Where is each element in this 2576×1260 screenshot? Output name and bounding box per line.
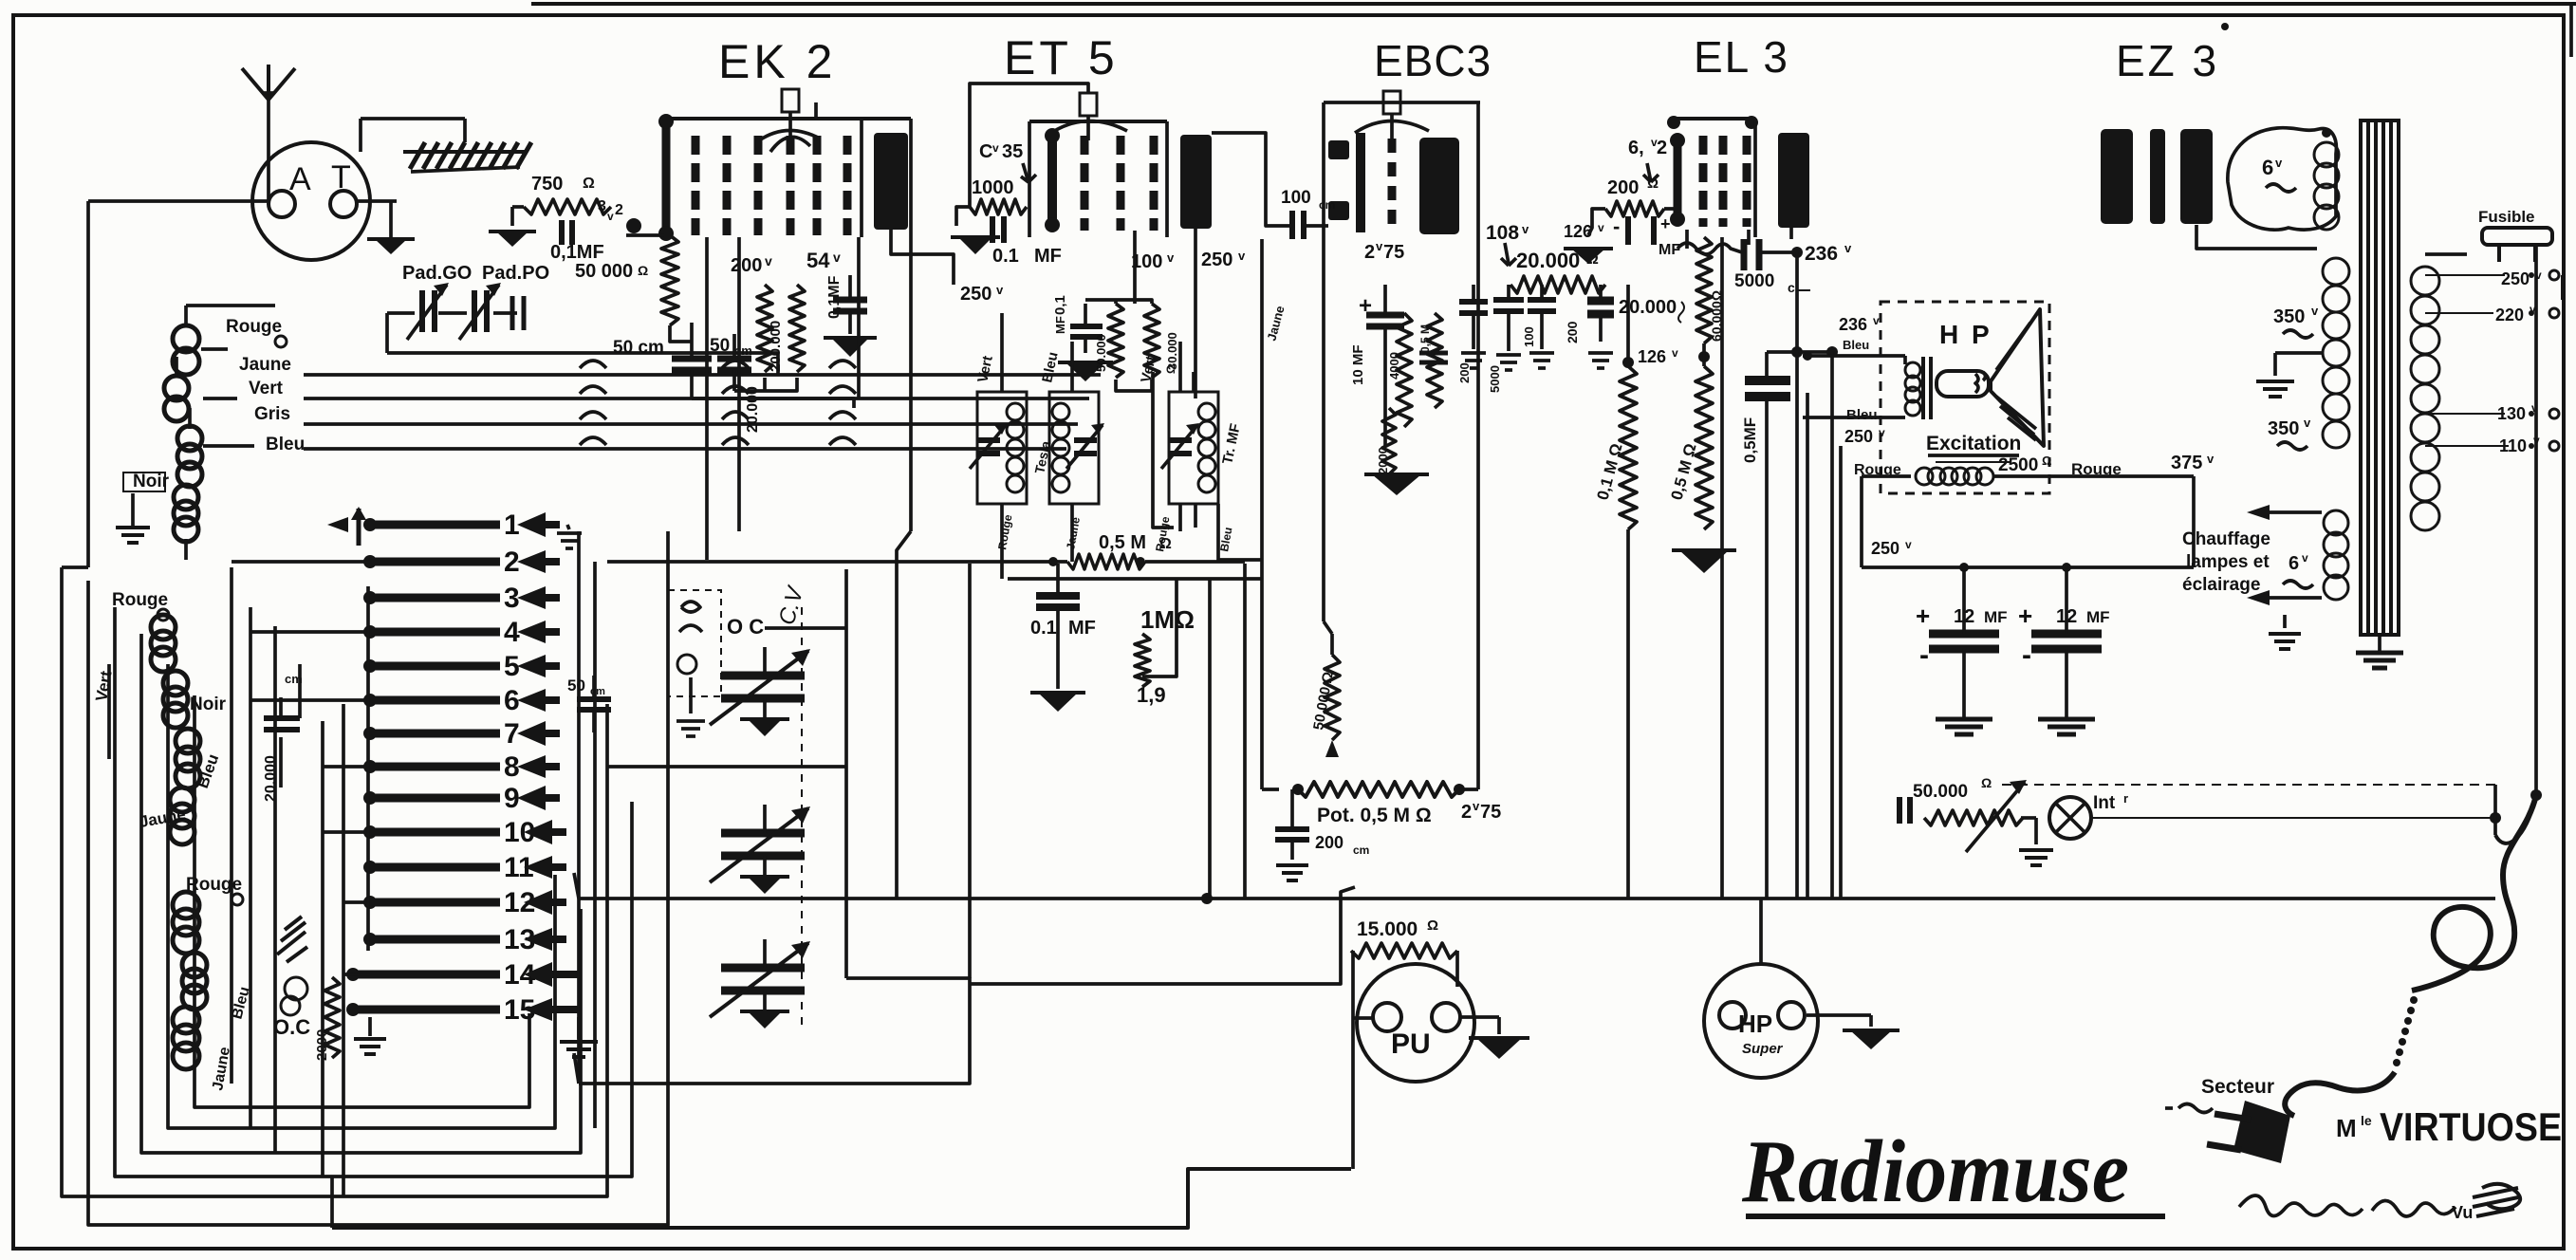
svg-text:250: 250 xyxy=(1201,250,1232,270)
svg-text:5000: 5000 xyxy=(1734,271,1774,291)
svg-text:+: + xyxy=(2018,602,2032,630)
svg-text:4: 4 xyxy=(504,617,520,648)
svg-text:200: 200 xyxy=(731,255,762,276)
svg-text:200: 200 xyxy=(1607,177,1639,198)
svg-text:Vert: Vert xyxy=(249,379,284,398)
svg-text:MF: MF xyxy=(1053,316,1067,334)
svg-text:T: T xyxy=(331,159,351,195)
svg-text:v: v xyxy=(996,283,1004,297)
svg-text:6: 6 xyxy=(2262,156,2273,179)
svg-text:v: v xyxy=(607,210,614,223)
svg-text:50 000: 50 000 xyxy=(575,261,633,282)
svg-text:v: v xyxy=(2207,452,2215,466)
svg-text:Radiomuse: Radiomuse xyxy=(1741,1122,2129,1221)
svg-text:3: 3 xyxy=(504,583,520,614)
svg-text:v: v xyxy=(992,141,999,155)
svg-text:Pad.GO: Pad.GO xyxy=(402,263,472,284)
svg-text:108: 108 xyxy=(1486,222,1519,244)
svg-text:Chauffage: Chauffage xyxy=(2182,529,2270,549)
svg-text:0.1: 0.1 xyxy=(1030,618,1057,639)
svg-text:1: 1 xyxy=(504,510,520,541)
svg-text:c: c xyxy=(1788,280,1795,295)
svg-text:250: 250 xyxy=(960,284,991,305)
svg-text:MF: MF xyxy=(1984,608,2008,626)
svg-text:Pad.PO: Pad.PO xyxy=(482,263,549,284)
svg-text:Noir: Noir xyxy=(133,472,170,491)
svg-text:75: 75 xyxy=(1383,242,1404,263)
svg-text:350: 350 xyxy=(2268,418,2299,439)
svg-text:v: v xyxy=(765,253,772,269)
svg-text:v: v xyxy=(1879,426,1885,439)
svg-text:cm: cm xyxy=(1353,843,1369,857)
svg-text:Jaune: Jaune xyxy=(239,355,291,375)
svg-text:0,5 M: 0,5 M xyxy=(1099,532,1146,553)
svg-text:Ω: Ω xyxy=(1981,775,1992,790)
svg-text:3: 3 xyxy=(598,198,606,214)
svg-text:0,1MF: 0,1MF xyxy=(550,242,604,263)
svg-text:O C: O C xyxy=(727,615,764,639)
svg-text:Ω: Ω xyxy=(1159,536,1172,552)
svg-text:Bleu: Bleu xyxy=(1843,338,1869,352)
svg-text:6: 6 xyxy=(504,685,520,716)
svg-text:0,1: 0,1 xyxy=(1052,295,1068,315)
svg-text:15.000: 15.000 xyxy=(1357,918,1418,940)
svg-text:50.000: 50.000 xyxy=(1094,334,1108,372)
svg-text:v: v xyxy=(1873,314,1880,327)
svg-text:126: 126 xyxy=(1638,347,1666,366)
svg-text:Bleu: Bleu xyxy=(1846,407,1878,423)
svg-text:ET 5: ET 5 xyxy=(1004,31,1119,84)
svg-text:126: 126 xyxy=(1564,222,1592,241)
svg-text:1000: 1000 xyxy=(972,177,1014,198)
svg-text:2: 2 xyxy=(1364,242,1375,263)
svg-text:20.000: 20.000 xyxy=(745,386,761,433)
svg-text:Ω: Ω xyxy=(1164,364,1177,374)
svg-text:5: 5 xyxy=(504,651,520,682)
svg-text:A: A xyxy=(289,161,311,197)
svg-text:2: 2 xyxy=(615,202,623,218)
svg-text:M: M xyxy=(2336,1114,2357,1142)
svg-text:+: + xyxy=(1916,602,1930,630)
svg-text:v: v xyxy=(2275,156,2283,170)
svg-text:v: v xyxy=(1473,799,1480,813)
svg-text:20.000: 20.000 xyxy=(1516,249,1580,272)
svg-text:v: v xyxy=(1167,250,1175,265)
svg-text:-: - xyxy=(1919,639,1929,671)
svg-text:30.000: 30.000 xyxy=(1165,332,1179,370)
svg-text:C: C xyxy=(979,141,992,162)
svg-text:v: v xyxy=(2302,551,2308,565)
svg-text:HP: HP xyxy=(1738,1010,1772,1038)
svg-text:8: 8 xyxy=(504,751,520,783)
svg-text:v: v xyxy=(2311,304,2319,318)
svg-text:Bleu: Bleu xyxy=(266,435,305,454)
svg-text:EZ 3: EZ 3 xyxy=(2116,36,2219,85)
svg-text:Ω: Ω xyxy=(1647,176,1659,192)
svg-text:v: v xyxy=(2304,416,2311,430)
svg-text:2: 2 xyxy=(1461,802,1472,823)
svg-text:75: 75 xyxy=(1480,802,1501,823)
svg-text:50: 50 xyxy=(710,336,730,356)
svg-text:200.000: 200.000 xyxy=(768,321,784,372)
svg-text:éclairage: éclairage xyxy=(2182,575,2260,595)
svg-text:350: 350 xyxy=(2273,306,2305,327)
svg-text:236: 236 xyxy=(1805,243,1838,265)
svg-text:1MΩ: 1MΩ xyxy=(1140,605,1195,634)
svg-text:6,: 6, xyxy=(1628,138,1644,158)
svg-text:250: 250 xyxy=(1871,539,1900,558)
svg-text:50.000: 50.000 xyxy=(1913,782,1968,802)
svg-text:2500: 2500 xyxy=(1998,455,2038,475)
svg-text:Super: Super xyxy=(1742,1041,1784,1057)
svg-text:Ω: Ω xyxy=(2042,454,2051,468)
svg-text:MF: MF xyxy=(2086,608,2110,626)
svg-text:1,9: 1,9 xyxy=(1137,683,1166,707)
svg-text:236: 236 xyxy=(1839,315,1867,334)
svg-text:50: 50 xyxy=(567,676,585,695)
svg-text:v: v xyxy=(1598,221,1604,234)
svg-text:0,5 M: 0,5 M xyxy=(1418,324,1432,353)
svg-text:250: 250 xyxy=(2501,269,2530,288)
svg-text:250: 250 xyxy=(1844,427,1873,446)
svg-text:r: r xyxy=(2123,791,2128,806)
svg-text:50 cm: 50 cm xyxy=(613,338,664,358)
svg-text:PU: PU xyxy=(1391,1028,1431,1060)
svg-text:v: v xyxy=(833,250,841,265)
svg-text:4000: 4000 xyxy=(1387,352,1401,380)
svg-text:Rouge: Rouge xyxy=(226,317,282,337)
svg-text:cm: cm xyxy=(1319,198,1335,212)
svg-text:le: le xyxy=(2361,1113,2372,1128)
svg-text:0,5MF: 0,5MF xyxy=(1741,417,1759,463)
svg-text:Fusible: Fusible xyxy=(2478,208,2535,226)
svg-text:0.1: 0.1 xyxy=(992,246,1019,267)
svg-text:54: 54 xyxy=(806,249,830,272)
svg-text:2: 2 xyxy=(1657,138,1667,158)
svg-text:EL 3: EL 3 xyxy=(1694,32,1789,82)
svg-text:v: v xyxy=(1905,538,1912,551)
svg-text:35: 35 xyxy=(1002,141,1023,162)
svg-text:v: v xyxy=(1672,346,1678,360)
svg-text:Ω: Ω xyxy=(583,176,595,192)
svg-text:MF: MF xyxy=(1659,242,1680,258)
svg-text:200: 200 xyxy=(1565,321,1580,343)
svg-text:O.C: O.C xyxy=(273,1015,310,1039)
svg-text:10 MF: 10 MF xyxy=(1350,344,1366,385)
svg-text:MF: MF xyxy=(1068,618,1096,639)
svg-text:Pot. 0,5 M Ω: Pot. 0,5 M Ω xyxy=(1317,805,1432,826)
svg-text:Secteur: Secteur xyxy=(2201,1076,2274,1098)
svg-text:Ω: Ω xyxy=(1427,917,1438,934)
svg-text:750: 750 xyxy=(531,174,563,195)
svg-text:375: 375 xyxy=(2171,453,2202,473)
svg-text:Int: Int xyxy=(2093,793,2116,813)
svg-text:5000: 5000 xyxy=(1488,365,1502,393)
svg-text:6: 6 xyxy=(2289,553,2299,574)
svg-text:2: 2 xyxy=(504,547,520,578)
svg-text:9: 9 xyxy=(504,783,520,814)
svg-text:H P: H P xyxy=(1939,320,1992,349)
svg-text:+: + xyxy=(1660,214,1671,233)
svg-text:v: v xyxy=(1844,241,1852,255)
svg-text:EK 2: EK 2 xyxy=(718,35,836,88)
svg-text:VIRTUOSE: VIRTUOSE xyxy=(2380,1104,2562,1149)
svg-text:v: v xyxy=(1522,222,1529,236)
svg-text:100: 100 xyxy=(1522,326,1536,347)
svg-text:200: 200 xyxy=(1457,362,1472,383)
svg-text:Excitation: Excitation xyxy=(1926,433,2021,454)
svg-text:lampes et: lampes et xyxy=(2186,552,2270,572)
svg-text:v: v xyxy=(1238,249,1246,263)
svg-text:7: 7 xyxy=(504,718,520,750)
svg-text:-: - xyxy=(1613,214,1620,238)
svg-text:100: 100 xyxy=(1281,188,1311,208)
svg-text:20.000: 20.000 xyxy=(1619,297,1677,318)
svg-text:220: 220 xyxy=(2495,306,2524,324)
svg-text:Vu: Vu xyxy=(2452,1203,2473,1222)
svg-text:200: 200 xyxy=(1315,833,1344,852)
svg-text:v: v xyxy=(1376,239,1383,253)
svg-text:EBC3: EBC3 xyxy=(1374,36,1492,85)
svg-text:Ω: Ω xyxy=(638,263,648,278)
svg-text:-: - xyxy=(2022,639,2031,671)
svg-text:Rouge: Rouge xyxy=(112,590,168,610)
svg-text:MF: MF xyxy=(1034,246,1062,267)
svg-text:Gris: Gris xyxy=(254,404,290,424)
